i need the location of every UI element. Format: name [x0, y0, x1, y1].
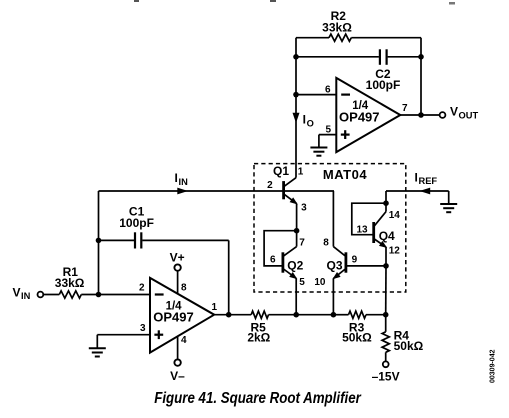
terminal V+ circle	[174, 264, 180, 270]
svg-text:IN: IN	[179, 177, 189, 187]
svg-text:Q4: Q4	[379, 229, 395, 243]
ground (bottom op-amp pin3)	[89, 347, 106, 349]
svg-text:–15V: –15V	[372, 370, 400, 384]
svg-text:12: 12	[389, 246, 401, 257]
wire V- lead pin4	[177, 337, 179, 360]
svg-text:9: 9	[352, 255, 358, 266]
wire left input vertical	[98, 191, 100, 295]
wire R4 top lead	[385, 315, 387, 332]
svg-text:REF: REF	[419, 176, 438, 186]
svg-text:V–: V–	[170, 369, 185, 383]
transistor Q2	[283, 231, 299, 315]
svg-text:10: 10	[314, 277, 326, 288]
arrow IO current	[293, 113, 300, 123]
svg-text:14: 14	[389, 210, 401, 221]
svg-text:V+: V+	[170, 250, 185, 264]
node output VOUT junction	[418, 112, 424, 118]
svg-text:MAT04: MAT04	[323, 167, 367, 182]
svg-text:2kΩ: 2kΩ	[247, 331, 270, 345]
svg-text:I: I	[175, 171, 178, 185]
resistor R4	[382, 332, 389, 353]
wire R4 bottom lead	[385, 352, 387, 361]
op-amp U2 plus sign	[154, 334, 163, 336]
node Q2 emitter junction	[293, 312, 299, 318]
svg-text:Q1: Q1	[273, 164, 289, 178]
MAT04 dashed box	[254, 164, 406, 292]
arrow IREF current	[420, 188, 431, 195]
svg-text:50kΩ: 50kΩ	[394, 339, 424, 353]
svg-text:7: 7	[299, 238, 305, 249]
wire pin6 input	[296, 94, 336, 96]
svg-text:50kΩ: 50kΩ	[342, 331, 372, 345]
svg-text:IN: IN	[21, 291, 31, 301]
svg-text:2: 2	[139, 282, 145, 293]
svg-text:5: 5	[325, 124, 331, 135]
node feedback right junction	[418, 54, 424, 60]
wire Q4 emitter node down to R4 node	[385, 266, 387, 315]
wire C1 right vertical down to output	[228, 240, 230, 314]
wire V+ lead pin8	[177, 271, 179, 294]
transistor Q1	[284, 178, 300, 231]
svg-text:8: 8	[181, 282, 187, 293]
node pin6 junction	[293, 92, 299, 98]
svg-text:6: 6	[325, 84, 331, 95]
node Q4 emitter / Q3 base junction	[383, 263, 389, 269]
wire Q3 node to R3 to R4 node	[333, 314, 348, 316]
svg-text:100pF: 100pF	[119, 216, 154, 230]
capacitor C1	[134, 232, 136, 248]
wire pin3 input	[97, 334, 150, 336]
op-amp U1 (1/4 OP497 top)	[336, 78, 400, 152]
svg-text:6: 6	[270, 255, 276, 266]
wire IO vertical (pin6 node down to Q1)	[295, 95, 297, 178]
resistor R2	[329, 34, 351, 41]
svg-text:100pF: 100pF	[366, 78, 401, 92]
wire VIN to R1	[43, 294, 59, 296]
svg-text:V: V	[13, 285, 21, 299]
svg-text:OUT: OUT	[459, 110, 479, 120]
wire R1 to op-amp pin2	[81, 294, 150, 296]
svg-text:Q3: Q3	[326, 258, 342, 272]
terminal -15V circle	[383, 361, 389, 367]
resistor R5	[251, 311, 268, 318]
decorative cropped marks top	[134, 0, 139, 2]
wire IIN horizontal	[99, 190, 335, 192]
wire C1 row	[99, 239, 135, 241]
wire left vertical feedback	[295, 38, 297, 95]
op-amp U1 minus sign	[341, 93, 350, 95]
ground (IREF)	[440, 203, 457, 205]
svg-text:2: 2	[267, 180, 273, 191]
wire C2 row	[296, 56, 379, 58]
node input junction	[96, 292, 102, 298]
svg-text:1: 1	[212, 302, 218, 313]
node R4 junction	[383, 312, 389, 318]
wire Q4 base loop	[352, 203, 386, 235]
wire output pin7	[400, 114, 439, 116]
svg-text:I: I	[303, 112, 306, 126]
svg-text:5: 5	[299, 277, 305, 288]
wire right vertical feedback	[420, 38, 422, 115]
svg-text:I: I	[415, 170, 418, 184]
svg-text:8: 8	[323, 238, 329, 249]
wire Q4 collector up to IREF wire	[385, 191, 387, 203]
svg-text:00309-042: 00309-042	[490, 349, 497, 383]
wire R5 to Q2 emitter node	[269, 314, 334, 316]
wire Q2 base loop	[264, 231, 297, 266]
wire output pin1 to R5	[214, 314, 251, 316]
wire IREF ground lead	[448, 191, 450, 204]
resistor R1	[59, 291, 81, 298]
node C1/output junction	[226, 312, 232, 318]
svg-text:13: 13	[356, 225, 368, 236]
op-amp U2 (1/4 OP497 bottom)	[150, 278, 214, 353]
svg-text:7: 7	[402, 103, 408, 114]
resistor R3	[349, 311, 367, 318]
svg-text:33kΩ: 33kΩ	[322, 21, 352, 35]
capacitor C2	[379, 49, 381, 65]
svg-text:33kΩ: 33kΩ	[55, 276, 85, 290]
svg-text:O: O	[307, 119, 314, 129]
node Q4 collector loop junction	[383, 200, 389, 206]
svg-text:V: V	[450, 104, 458, 118]
node C1 left junction	[96, 238, 102, 244]
svg-text:3: 3	[140, 323, 146, 334]
svg-text:Figure 41. Square Root Amplifi: Figure 41. Square Root Amplifier	[154, 390, 361, 407]
svg-text:3: 3	[301, 203, 307, 214]
node Q3 emitter junction	[331, 312, 337, 318]
wire pin5 input	[319, 134, 336, 136]
terminal VIN circle	[38, 292, 44, 298]
svg-text:OP497: OP497	[339, 109, 379, 124]
wire Q3 base to Q4 emitter node	[346, 265, 386, 267]
arrow IIN current	[177, 188, 188, 195]
svg-text:OP497: OP497	[153, 309, 193, 324]
svg-text:Q2: Q2	[287, 258, 303, 272]
wire IREF horizontal	[386, 190, 449, 192]
transistor Q3	[331, 191, 346, 315]
op-amp U1 plus sign	[341, 134, 350, 136]
terminal VOUT circle	[440, 112, 446, 118]
wire R2 top feedback horizontal	[296, 37, 329, 39]
transistor Q4	[374, 203, 389, 266]
terminal V- circle	[174, 359, 180, 365]
svg-text:4: 4	[181, 335, 187, 346]
node feedback left junction	[293, 54, 299, 60]
ground (top op-amp pin5)	[310, 147, 327, 149]
node Q1 emitter / Q2 collector junction	[294, 228, 300, 234]
svg-text:1: 1	[298, 166, 304, 177]
op-amp U2 minus sign	[155, 293, 164, 295]
